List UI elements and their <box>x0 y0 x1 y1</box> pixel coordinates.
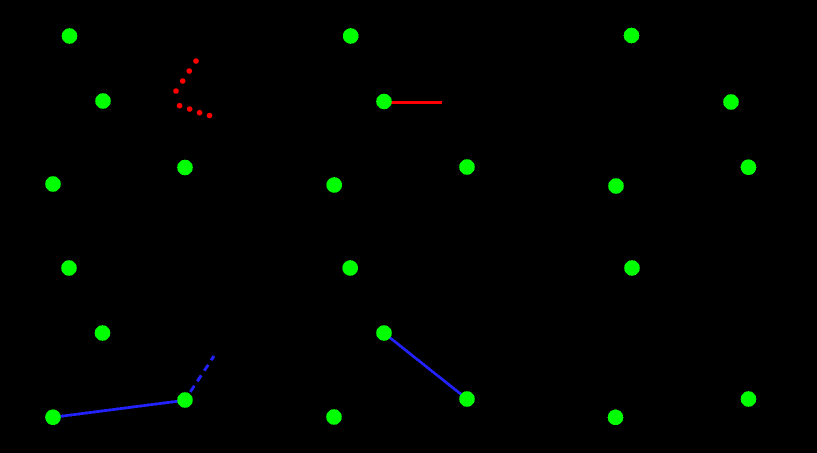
red dotted ray up-right, dash 1 (arrow tip) <box>193 58 199 64</box>
red dotted ray right-down, dash 3 <box>197 110 203 116</box>
atom E1 <box>95 325 111 341</box>
atom F3 <box>326 409 342 425</box>
atom D3 <box>624 260 640 276</box>
atom A1 <box>62 28 78 44</box>
red dotted ray up-right, dash 2 <box>187 68 193 74</box>
atom D1 <box>61 260 77 276</box>
red dotted ray right-down, dash 4 (arrow tip) <box>207 113 213 119</box>
atom F5 <box>608 410 624 426</box>
atom F2 <box>177 392 193 408</box>
atom F6 <box>741 391 757 407</box>
atom B3 (displaced) <box>723 94 739 110</box>
atom C1 <box>45 176 61 192</box>
atom E2 <box>376 325 392 341</box>
atom F4 <box>459 391 475 407</box>
red dotted ray up-right, dash 3 <box>180 78 186 84</box>
atom D2 <box>342 260 358 276</box>
red dotted ray right-down, dash 2 <box>187 106 193 112</box>
blue dashed bond from atom F2 up-right <box>185 356 214 400</box>
atom B2 <box>376 94 392 110</box>
blue solid bond E2-F4 <box>384 333 467 399</box>
atom C6 <box>741 160 757 176</box>
blue solid bond F1-F2 <box>53 400 185 417</box>
red dotted ray right-down, dash 1 <box>177 103 183 109</box>
red dotted ray up-right, dash 4 <box>173 88 179 94</box>
atom A2 <box>343 28 359 44</box>
atom A3 <box>624 28 640 44</box>
atom B1 <box>95 93 111 109</box>
atom C4 <box>459 159 475 175</box>
atom C5 <box>608 178 624 194</box>
atom F1 <box>45 410 61 426</box>
atom C3 <box>326 177 342 193</box>
red velocity vector line from atom B2 <box>386 101 442 104</box>
atom C2 <box>177 160 193 176</box>
